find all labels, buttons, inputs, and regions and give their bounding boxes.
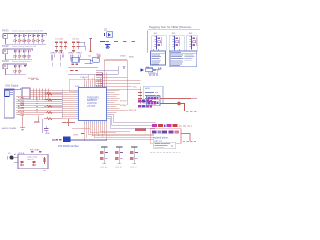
capacitor C8 — [75, 63, 78, 65]
buffer U3 input blob — [141, 68, 144, 71]
opto U4 element row 1 — [148, 97, 159, 100]
wire jack to amp — [14, 158, 18, 162]
wire bottom rail PWR1 — [6, 38, 47, 44]
svg-text:GPA3: GPA3 — [76, 52, 82, 55]
wire down from left rows — [42, 119, 44, 133]
pin column P1 ticks — [96, 73, 103, 91]
capacitor C4 — [72, 42, 85, 46]
wire bus A — [96, 66, 118, 70]
net stub GPA3 — [78, 54, 80, 61]
wire stubs above bus — [31, 79, 39, 81]
capacitor C11 — [32, 161, 35, 165]
connector block CB1 rows — [138, 92, 160, 102]
net stub GPA0 — [52, 54, 54, 60]
resistor PWR1R1 — [14, 34, 17, 45]
net label row 2 purple — [152, 130, 179, 133]
ground GND1 — [20, 128, 25, 131]
node end PWR1 — [46, 34, 48, 36]
buffer U3 — [146, 68, 153, 72]
wire stub to table T2 — [174, 49, 179, 51]
svg-text:OUT B: OUT B — [115, 167, 122, 169]
wire crystal to osc — [79, 59, 93, 63]
series resistor RS2 — [44, 99, 62, 101]
net tick TDI — [123, 67, 126, 69]
resistor PWR3R1 — [14, 64, 17, 75]
wire top rail PWR3 — [3, 63, 27, 65]
header outline top wire — [104, 59, 127, 61]
opto U4 box — [147, 96, 161, 106]
svg-text:GPA1: GPA1 — [58, 52, 64, 55]
svg-text:class D: class D — [27, 159, 34, 161]
resistor PWR1R7 — [41, 34, 44, 45]
capacitor C6 — [72, 50, 75, 53]
MCU bottom pins — [84, 121, 106, 124]
svg-text:C4 10u: C4 10u — [72, 38, 80, 40]
svg-text:GPA0: GPA0 — [50, 52, 56, 55]
node bottom of 3V3 wire — [90, 51, 92, 52]
svg-text:U1 DSP: U1 DSP — [87, 106, 96, 108]
diode D3 — [105, 44, 111, 48]
wire bus long — [68, 70, 118, 74]
series resistor RS5 — [44, 118, 62, 120]
note box N1 text — [150, 69, 156, 72]
wire bus B — [100, 76, 127, 78]
resistor PWR3R2 — [18, 64, 21, 75]
wire down from bus — [22, 115, 24, 127]
wire stub right of grid — [34, 115, 39, 122]
wire top rail PWR2 — [3, 48, 33, 50]
ferrite bead FB1 — [135, 129, 146, 132]
jack J6 ground — [189, 51, 195, 52]
net stub nRST — [81, 133, 84, 135]
net tick column — [36, 98, 38, 113]
oscillator U2 — [93, 57, 100, 62]
svg-text:GPA2: GPA2 — [68, 52, 74, 55]
jack J4 — [155, 35, 161, 49]
capacitor C9 — [44, 126, 48, 132]
svg-text:MIC BIAS: MIC BIAS — [30, 149, 40, 152]
svg-text:AGND PLANE: AGND PLANE — [2, 127, 17, 130]
amplifier block A1 — [18, 154, 48, 168]
pin column P1 spine — [102, 72, 104, 90]
speaker jack J8 — [8, 154, 16, 160]
capacitor C7 — [71, 63, 74, 65]
connector PWR1J — [3, 34, 8, 38]
svg-text:TCK: TCK — [132, 86, 137, 88]
svg-text:3V3 DVDD rail filter: 3V3 DVDD rail filter — [58, 145, 79, 148]
staircase wire right 2 — [109, 116, 155, 125]
staircase wires bottom of MCU — [84, 124, 154, 141]
svg-text:SCIRX: SCIRX — [120, 105, 127, 107]
net stub pair — [70, 70, 78, 72]
resistor PWR2R2 — [18, 49, 21, 60]
bus grid horizontal wires — [16, 90, 62, 114]
transistor circuit Q1 — [100, 147, 108, 169]
wire into D2 — [100, 40, 105, 42]
wire net OUT2 — [160, 104, 185, 112]
connector J7 body — [5, 90, 9, 97]
net stub GPA2 — [70, 54, 72, 60]
series resistor RS1 — [44, 93, 62, 95]
jack group box 3 — [186, 36, 198, 52]
svg-text:ON2 Digital: ON2 Digital — [5, 83, 19, 87]
note stamp box N2 — [153, 142, 176, 149]
MCU top pins — [84, 85, 106, 87]
net label blob row 2 — [138, 105, 152, 108]
net label row 1 magenta — [152, 124, 178, 127]
transistor circuit Q2 — [115, 147, 123, 169]
resistor PWR1R4 — [28, 34, 31, 45]
faint dash row under note — [150, 152, 180, 154]
wire bus C — [96, 79, 140, 81]
capacitor C10 — [20, 161, 23, 165]
svg-text:LQFP100: LQFP100 — [87, 103, 98, 105]
net label blob row 1 — [138, 100, 152, 103]
MCU left pins — [76, 90, 78, 118]
svg-text:HDR: HDR — [145, 88, 150, 90]
net stub GPA0 tail — [52, 62, 61, 66]
MCU right pins — [107, 90, 109, 118]
wire stub below tables — [159, 67, 161, 71]
svg-text:Power pull-up bank B 1V8: Power pull-up bank B 1V8 — [12, 45, 37, 48]
wire from J7 — [9, 88, 20, 90]
svg-text:8035PNT: 8035PNT — [87, 99, 98, 102]
LED D2 — [105, 32, 113, 38]
wires MCU top verticals — [84, 73, 106, 91]
wire from U3 — [153, 69, 160, 71]
note box N1 — [149, 69, 158, 74]
capacitor C5 — [72, 46, 85, 51]
svg-text:isolated driver: isolated driver — [153, 137, 168, 140]
staircase wire right 3 — [109, 118, 155, 128]
svg-text:nRST: nRST — [73, 134, 79, 136]
frame left border — [147, 31, 149, 53]
svg-text:OUT C: OUT C — [130, 167, 137, 169]
resistor PWR1R2 — [18, 34, 21, 45]
relay box K2 — [150, 129, 181, 144]
svg-text:SCITX: SCITX — [120, 100, 127, 102]
opto U4 element row 2 — [148, 101, 159, 104]
svg-text:Power pull-up resistor bank A: Power pull-up resistor bank A 3V3 — [12, 29, 44, 32]
crystal Y1 — [72, 57, 79, 62]
capacitor C3 — [55, 50, 63, 53]
net stub GPA1 — [61, 54, 63, 60]
resistor column RN1 — [18, 98, 24, 116]
wire from relay box — [181, 133, 190, 140]
wire bus upper — [68, 67, 98, 69]
svg-text:PWR2: PWR2 — [2, 46, 9, 48]
diode D1 — [24, 64, 26, 67]
node end PWR3 — [26, 64, 28, 66]
junction blob on OUT2 — [177, 102, 181, 106]
resistor PWR2R4 — [28, 49, 31, 60]
jack J4 ground — [154, 51, 160, 52]
connector J7 outline — [4, 89, 14, 118]
jack group box 1 — [152, 36, 167, 52]
capacitor C2 — [55, 46, 67, 50]
staircase wire right 1 — [109, 114, 155, 122]
node top of 3V3 wire — [89, 37, 91, 39]
header left vertical wire — [103, 60, 105, 96]
node end PWR2 — [32, 49, 34, 51]
wire dashes row 1 — [179, 125, 190, 127]
wire dashed net RED — [106, 41, 140, 43]
pin table T2 — [170, 51, 197, 67]
connector block CB1 — [143, 86, 163, 103]
resistor PWR2R1 — [14, 49, 17, 60]
series resistor RS3 — [44, 105, 62, 107]
wire net OUT1 — [160, 98, 191, 100]
component ticks above audio block — [31, 151, 42, 152]
jack J6 — [190, 35, 196, 49]
jack J5 ground — [172, 51, 178, 52]
bus grid vertical stubs — [33, 89, 48, 100]
inductor L1 — [63, 137, 70, 143]
wire spine left of MCU — [61, 90, 63, 119]
ground GND2 — [43, 169, 46, 170]
connector J7 pin marks — [10, 91, 13, 95]
pin table T1 — [151, 51, 166, 65]
resistor R20 — [43, 157, 46, 164]
jack J5 — [173, 35, 179, 49]
svg-text:PWR3: PWR3 — [2, 61, 9, 63]
series resistor RS4 — [44, 111, 62, 113]
wires MCU left rows — [62, 90, 76, 118]
svg-text:GND: GND — [45, 133, 50, 135]
dashed net name OUT2 — [186, 111, 198, 113]
header right vertical wire — [126, 60, 128, 105]
wire bottom rail PWR2 — [6, 54, 33, 60]
wire bus E — [96, 85, 131, 87]
svg-text:EMU: EMU — [129, 56, 134, 58]
resistor PWR1R5 — [32, 34, 35, 45]
title underline — [148, 28, 200, 30]
wire stub x68 — [62, 119, 75, 126]
stub marks near VDD — [97, 56, 100, 58]
power bar resistor row — [56, 139, 62, 141]
MCU U1 body — [79, 88, 107, 121]
power bar wire — [70, 139, 107, 141]
power bar left tick — [52, 139, 55, 141]
svg-text:C1 100n: C1 100n — [55, 38, 64, 40]
wire bus F — [93, 88, 141, 90]
resistor PWR1R6 — [37, 34, 40, 45]
resistor PWR1R3 — [23, 34, 26, 45]
dashed label under wire — [183, 141, 196, 143]
wire top rail PWR1 — [3, 33, 47, 35]
svg-text:Power pull-up bank C: Power pull-up bank C — [12, 60, 32, 63]
wire bottom rail PWR3 — [6, 69, 27, 75]
note stamp text rows — [155, 143, 173, 148]
junction mark — [38, 121, 40, 122]
svg-text:JTAG: JTAG — [120, 54, 126, 57]
transistor circuit Q3 — [130, 147, 138, 169]
resistor PWR2R3 — [23, 49, 26, 60]
wire stub to table T1 — [154, 49, 159, 51]
svg-text:OUT A: OUT A — [100, 166, 107, 169]
svg-text:PWR1: PWR1 — [2, 30, 9, 32]
wires MCU right rows — [109, 90, 128, 112]
wire vertical net 3V3 — [90, 39, 92, 51]
svg-text:Pegging Son for NEW (Diverse): Pegging Son for NEW (Diverse) — [149, 25, 191, 29]
module outline MOD1 — [69, 79, 95, 91]
wire left exit row — [72, 128, 90, 130]
wire bus D — [100, 82, 140, 84]
component box K1 — [22, 88, 30, 99]
jack group box 2 — [169, 36, 184, 52]
connector PWR3J — [3, 64, 8, 68]
svg-text:SPICLK: SPICLK — [129, 110, 137, 112]
net label stub row — [149, 74, 158, 76]
vertical wire to conn block — [140, 86, 142, 104]
capacitor C1 — [55, 42, 67, 46]
connector PWR2J — [3, 49, 8, 53]
